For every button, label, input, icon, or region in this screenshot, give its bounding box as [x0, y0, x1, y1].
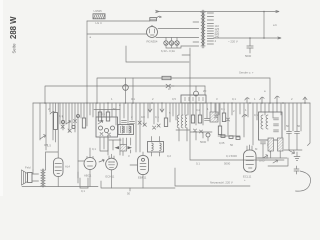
tuning squiggle arrow C: [245, 98, 249, 104]
wire mains vertical: [263, 12, 265, 39]
resistor R12: [218, 126, 221, 135]
resistor R10: [198, 115, 201, 123]
svg-text:0,1: 0,1: [81, 189, 85, 193]
wire stub bottom left: [77, 172, 79, 178]
lamp L2: [169, 41, 173, 45]
cluster X contacts: [61, 125, 71, 132]
wire cathode line: [87, 33, 147, 35]
IF output winding1: [268, 138, 274, 151]
switch cluster above V3: [120, 145, 127, 152]
wire lamp leads: [166, 38, 181, 49]
svg-text:a b: a b: [273, 23, 277, 27]
svg-text:0,1: 0,1: [155, 115, 159, 119]
svg-text:1M: 1M: [141, 115, 146, 119]
X contacts mid: [138, 121, 146, 126]
oscillator box: [259, 112, 283, 140]
svg-text:Netzanschl. 220 V: Netzanschl. 220 V: [210, 181, 233, 185]
resistor R5: [106, 112, 109, 121]
osc coil chain2: [266, 115, 268, 129]
svg-text:0,1: 0,1: [92, 147, 96, 151]
svg-text:0,5: 0,5: [172, 97, 176, 101]
electrolytic bottom: [294, 166, 299, 174]
coil hatched Lm: [210, 112, 218, 122]
node bus dots: [44, 102, 46, 104]
switch on bias line: [166, 84, 174, 88]
resistor on anode line: [162, 76, 171, 79]
tiny boxes row: [221, 135, 225, 138]
svg-text:~ 220 V: ~ 220 V: [228, 40, 238, 44]
X contact m2a: [215, 115, 230, 121]
svg-text:Sender u. +: Sender u. +: [239, 71, 254, 75]
squiggle arrow m2: [242, 114, 247, 117]
cluster arrow: [66, 121, 71, 125]
label page title Seite 288 W: [9, 16, 18, 54]
output tube AL4: [54, 158, 64, 177]
svg-text:288 W: 288 W: [9, 16, 18, 39]
svg-text:0,05: 0,05: [259, 159, 265, 163]
wire verticals below: [196, 132, 208, 141]
wire bus left drop: [32, 103, 34, 170]
svg-text:0,2: 0,2: [167, 154, 171, 158]
wire fuse squiggle arrow: [157, 16, 162, 18]
svg-text:0,2: 0,2: [196, 108, 200, 112]
stacked caps: [274, 118, 279, 132]
wire AL4 top leads: [46, 103, 59, 170]
tuning squiggle arrow A: [260, 97, 264, 103]
wire y140 short + left leads: [108, 135, 121, 155]
wire winding leads: [271, 151, 281, 158]
small comp before right corner: [303, 97, 307, 103]
svg-text:ZF: ZF: [203, 89, 207, 93]
svg-text:0,1: 0,1: [221, 107, 225, 111]
wire bus drops left: [40, 103, 78, 183]
IF output winding2: [278, 138, 284, 151]
X contacts rmid: [194, 129, 203, 133]
wire bus drops mid1: [100, 103, 148, 152]
capacitor C7: [130, 122, 135, 124]
box bottom open: [80, 178, 88, 188]
svg-text:5000: 5000: [224, 162, 231, 166]
antenna swoosh: [296, 171, 311, 191]
Y contact arrows: [148, 109, 164, 112]
switch arrows bottom right: [263, 155, 278, 163]
wire V2 grid lead: [78, 128, 190, 161]
output transformer secondary: [44, 170, 46, 186]
capacitor C6: [122, 121, 127, 123]
wire V4 grid lead: [130, 164, 138, 166]
lamp L3: [175, 41, 179, 45]
resistor R11: [222, 113, 225, 122]
svg-text:AL4: AL4: [65, 165, 70, 169]
wire bottom right horizontals: [247, 146, 288, 166]
IF transformer box2: [148, 142, 164, 153]
wire grid bias line: [45, 86, 205, 103]
rectifier tube AZ1: [147, 27, 158, 38]
svg-text:5000: 5000: [200, 140, 207, 144]
tube V5: [244, 150, 257, 172]
svg-text:0,1: 0,1: [101, 112, 105, 116]
pot arrow R1: [50, 111, 55, 114]
resistor R3: [82, 118, 85, 128]
wire short horizontal over box: [94, 109, 120, 111]
arrow to ground: [289, 151, 295, 154]
arrow right of cluster: [128, 146, 133, 149]
box X contacts: [100, 133, 111, 137]
tuning squiggle arrow B: [275, 96, 279, 103]
wire caps below box to y158: [263, 144, 270, 158]
coupling circle above bus: [194, 91, 199, 96]
wire bus drops centre: [150, 103, 188, 124]
node arrow left end: [156, 10, 160, 13]
tube V3 ECH: [106, 158, 118, 170]
wire bus drops mid2: [216, 103, 248, 137]
svg-text:ECH11: ECH11: [106, 175, 115, 179]
caps right: [287, 132, 300, 134]
osc coil chain1: [261, 115, 263, 129]
svg-text:50: 50: [286, 124, 290, 128]
svg-text:50: 50: [127, 192, 131, 196]
wire AL4 bottom to chassis: [57, 177, 59, 187]
pot arrow vol: [40, 135, 46, 139]
capacitor mains filter: [247, 38, 253, 53]
capacitor C9: [205, 119, 210, 121]
jack socket: [123, 85, 129, 91]
wire heater run to chassis: [126, 46, 189, 62]
switch assembly box: [96, 117, 118, 137]
svg-text:6,3V~ 0,3A: 6,3V~ 0,3A: [161, 49, 175, 53]
svg-text:RGN354: RGN354: [147, 40, 158, 44]
output transformer primary: [41, 170, 43, 186]
wire bus drops group x80-96: [81, 103, 96, 126]
wire mains arrow top: [264, 10, 279, 12]
wire tube bottom leads: [90, 170, 143, 189]
box arrow: [98, 120, 103, 124]
transformer T1 primary winding: [201, 12, 203, 46]
wire HT vertical: [86, 21, 88, 103]
resistor R4: [98, 112, 101, 121]
wire grid arrow V3: [99, 159, 104, 162]
wire heater lamp line: [156, 37, 199, 39]
resistor R9: [191, 115, 194, 123]
svg-text:Feld: Feld: [25, 166, 31, 170]
switch box on bus: [181, 95, 206, 103]
IF transformer box1: [118, 125, 134, 135]
wire anode supply line: [97, 78, 270, 103]
wire caps to y150: [284, 133, 302, 150]
svg-text:EBF11: EBF11: [138, 176, 147, 180]
circle rmid: [206, 133, 210, 137]
node dots mains: [263, 11, 265, 13]
svg-text:50: 50: [230, 143, 234, 147]
wire box to tube row: [100, 137, 108, 151]
wire horizontal y132: [190, 131, 212, 133]
tube V2 ABC1: [84, 158, 96, 170]
tube V4 EBF: [138, 156, 149, 175]
X contact x75: [74, 120, 77, 123]
svg-text:1,5: 1,5: [47, 144, 51, 148]
transformer T1 core: [202, 10, 204, 48]
wire bottom chassis left: [22, 186, 98, 188]
transformer T1 secondary winding: [203, 12, 205, 46]
box circles: [99, 126, 103, 130]
tick bottom: [129, 188, 131, 191]
circle small x78: [77, 115, 80, 118]
wire top supply line: [156, 11, 264, 13]
X contacts centre: [153, 124, 161, 129]
svg-text:LG 4: LG 4: [96, 21, 103, 25]
wire mains arrow bottom: [264, 37, 281, 39]
svg-text:0,1: 0,1: [131, 97, 135, 101]
wire HT centre tap down: [190, 48, 284, 160]
resistor R8: [164, 118, 167, 127]
wire horizontal y136: [218, 135, 240, 137]
svg-text:0,1: 0,1: [196, 162, 200, 166]
wire bottom chassis mid: [175, 168, 250, 186]
cluster circles: [61, 120, 64, 123]
svg-text:Seite: Seite: [12, 43, 17, 54]
svg-text:0,05: 0,05: [219, 141, 225, 145]
transformer T1 primary taps: [158, 22, 199, 46]
svg-text:W: W: [168, 87, 171, 91]
svg-text:5000: 5000: [245, 54, 252, 58]
wire heater feed left: [87, 20, 150, 22]
wire main HT bus: [33, 102, 310, 104]
wire mains line: [214, 37, 265, 39]
caps below box: [261, 142, 273, 146]
wire speaker links: [32, 170, 39, 181]
wire tick at 55: [182, 54, 190, 56]
arrow left of cluster: [115, 146, 120, 149]
ground symbol right: [294, 152, 300, 161]
svg-text:ABC1: ABC1: [84, 174, 92, 178]
wire transformer top feed: [201, 11, 205, 14]
lamp L1: [164, 41, 168, 45]
loudspeaker: [22, 170, 28, 185]
transformer T1 secondary taps: [207, 13, 213, 44]
svg-text:0,1 5000: 0,1 5000: [226, 154, 237, 158]
wire bus drops right: [253, 103, 301, 145]
wire bus drops rmid: [193, 103, 219, 125]
svg-text:50: 50: [297, 124, 301, 128]
wire bottom y188: [101, 181, 175, 188]
svg-text:0,1: 0,1: [232, 97, 236, 101]
resistor ballast hatched: [93, 14, 105, 19]
svg-text:50: 50: [113, 107, 117, 111]
svg-text:U1525: U1525: [94, 9, 103, 13]
fuse Si1: [150, 18, 157, 21]
wire V5 links: [250, 145, 269, 158]
svg-text:0,5: 0,5: [254, 113, 258, 117]
output transformer core: [42, 169, 43, 187]
resistor R1: [54, 113, 58, 130]
wire bus right drop: [308, 103, 311, 146]
wire box2 leads: [152, 137, 160, 157]
coil chains centre: [177, 115, 179, 128]
wire leads above V3: [120, 138, 131, 156]
